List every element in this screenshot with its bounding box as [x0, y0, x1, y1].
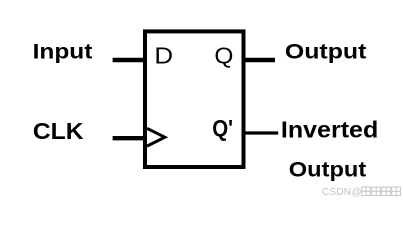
- svg-text:Inverted: Inverted: [281, 117, 378, 143]
- svg-text:Q: Q: [214, 43, 233, 69]
- wire: Q' to Inverted Output: [243, 131, 278, 134]
- svg-text:@: @: [351, 187, 361, 198]
- svg-text:CLK: CLK: [33, 118, 84, 144]
- watermark CJK glyph blocks: [362, 187, 401, 196]
- svg-text:D: D: [154, 43, 173, 69]
- svg-text:Input: Input: [33, 40, 93, 63]
- svg-text:CSDN: CSDN: [322, 187, 351, 198]
- clock input triangle: [147, 128, 165, 146]
- svg-text:Output: Output: [285, 40, 367, 64]
- wire: Q to Output: [243, 58, 275, 62]
- flip-flop body U1: [145, 31, 244, 167]
- svg-text:Q': Q': [212, 115, 233, 141]
- wire: CLK to clock pin: [113, 136, 145, 140]
- wire: Input to D: [113, 58, 145, 62]
- svg-text:Output: Output: [289, 157, 366, 181]
